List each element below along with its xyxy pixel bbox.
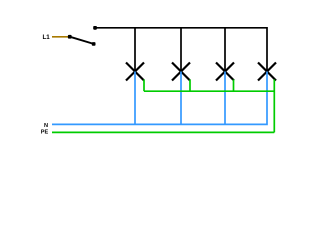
- lamp E3: [216, 63, 234, 81]
- wire neutral lamp E2 to N bus: [180, 72, 182, 125]
- wire drop to lamp E1: [134, 27, 136, 72]
- switch S1 fixed contact terminal: [93, 26, 97, 30]
- wire top L1 bus: [95, 27, 267, 29]
- wire L1 brown feed: [52, 36, 70, 38]
- svg-text:L1: L1: [42, 34, 50, 41]
- switch S1 lever end terminal: [92, 42, 96, 46]
- switch S1 lever: [70, 37, 94, 44]
- wire PE riser lamp E4 to PE bus: [273, 80, 275, 133]
- wire drop to lamp E2: [180, 27, 182, 72]
- wire N bus with lamp E4 drop: [52, 72, 267, 125]
- lamp E4: [258, 63, 276, 81]
- lamp E2: [172, 63, 190, 81]
- wire PE collector bus: [144, 90, 274, 92]
- wire neutral lamp E3 to N bus: [224, 72, 226, 125]
- wire PE stub lamp E3: [233, 80, 235, 92]
- svg-text:N: N: [44, 123, 48, 129]
- wire neutral lamp E1 to N bus: [134, 72, 136, 125]
- switch S1 pivot terminal: [68, 35, 72, 39]
- wire PE bus: [52, 131, 274, 133]
- wire PE stub lamp E2: [189, 80, 191, 92]
- lamp E1: [126, 63, 144, 81]
- wire drop to lamp E4: [266, 27, 268, 72]
- wire PE stub lamp E1: [143, 80, 145, 92]
- wire drop to lamp E3: [224, 27, 226, 72]
- svg-text:PE: PE: [41, 129, 49, 135]
